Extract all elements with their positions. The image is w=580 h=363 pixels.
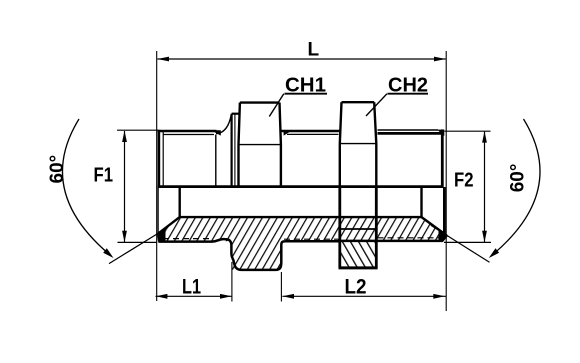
right 60 degree arc xyxy=(491,119,540,256)
mid body top edge xyxy=(281,130,340,132)
F2 dimension line xyxy=(484,132,486,242)
CH1 underline xyxy=(285,93,328,95)
right thread crest line xyxy=(378,129,439,131)
L2 right arrow xyxy=(433,294,445,299)
right thread top edge xyxy=(378,132,442,135)
locknut CH2 washer line xyxy=(341,228,376,230)
F1 dimension line xyxy=(124,131,126,242)
L2 left arrow xyxy=(282,294,294,299)
dimension L right arrow xyxy=(434,57,446,62)
locknut CH2 section right edge xyxy=(375,187,378,268)
L1 dimension line xyxy=(156,295,232,297)
F1 bottom extension line xyxy=(118,241,158,243)
left thread top edge xyxy=(158,130,217,132)
locknut CH2 section bottom xyxy=(339,266,378,269)
L1 left arrow xyxy=(156,294,168,299)
CH2 underline xyxy=(388,93,429,95)
band bottom edge left with hex1 step xyxy=(158,239,339,270)
F2 top arrow xyxy=(482,131,487,142)
mid body runout xyxy=(284,130,293,135)
lower right bore step xyxy=(420,187,422,218)
CH1 leader xyxy=(269,94,284,117)
locknut CH2 section left edge xyxy=(338,187,341,268)
lower left end face line xyxy=(157,187,159,233)
svg-text:60°: 60° xyxy=(508,164,529,193)
svg-text:F1: F1 xyxy=(94,165,114,187)
band top edge with chamfers xyxy=(158,217,447,235)
hidden thread root dashes right xyxy=(378,237,442,239)
collar inner line xyxy=(234,115,236,187)
locknut CH2 lower section hatch xyxy=(341,241,377,269)
left thread runout curve xyxy=(216,115,231,134)
mid body root line xyxy=(287,133,339,135)
centerline body mid line xyxy=(158,185,444,188)
cone line right xyxy=(431,225,490,262)
F2 bottom extension line xyxy=(444,241,491,243)
hex1 nut lower section hatch xyxy=(232,241,282,270)
hidden thread root dashes left xyxy=(163,238,213,240)
L2 dimension line xyxy=(282,295,446,297)
hex CH2 chamfer line xyxy=(340,143,377,145)
left thread runout xyxy=(211,130,221,135)
left extension line xyxy=(156,51,158,301)
hex nut CH1 outline xyxy=(239,103,281,187)
svg-text:L1: L1 xyxy=(182,275,201,298)
dimension L line xyxy=(157,58,445,60)
svg-text:F2: F2 xyxy=(454,170,474,192)
CH2 leader xyxy=(366,94,387,116)
L1 right arrow xyxy=(220,294,232,299)
F1 bottom arrow xyxy=(122,231,127,242)
left arc arrowhead xyxy=(103,248,113,258)
L2 left extension line xyxy=(280,272,282,302)
F2 top extension line xyxy=(445,130,491,132)
lower left bore step xyxy=(178,187,180,218)
hatched flange band section xyxy=(158,217,447,241)
right thread runout xyxy=(437,130,444,136)
right extension line xyxy=(445,51,447,311)
collar left edge xyxy=(231,114,233,187)
dimension L left arrow xyxy=(157,57,169,62)
cone line left xyxy=(109,227,168,263)
svg-text:L: L xyxy=(308,40,320,61)
svg-text:L2: L2 xyxy=(345,275,367,298)
hex CH1 chamfer line xyxy=(239,144,281,146)
left thread root line xyxy=(163,134,214,136)
band bottom edge right xyxy=(340,236,447,241)
collar top edge xyxy=(232,113,239,115)
right arc arrowhead xyxy=(489,248,499,258)
left wedge tip fill xyxy=(157,227,166,242)
left chamfer line xyxy=(162,131,164,186)
F2 bottom arrow xyxy=(482,231,487,242)
body right end face lower xyxy=(443,187,446,238)
body right end face xyxy=(441,129,444,187)
svg-text:60°: 60° xyxy=(47,155,68,184)
left thread end line xyxy=(215,135,217,187)
L1 right extension line xyxy=(231,262,233,302)
hidden thread root dashes mid xyxy=(284,238,339,240)
left 60 degree arc xyxy=(62,119,111,256)
F1 top arrow xyxy=(122,131,127,142)
right wedge tip fill xyxy=(439,229,448,242)
F1 top extension line xyxy=(117,129,158,131)
locknut CH2 outline xyxy=(340,102,377,186)
body left end face xyxy=(158,130,161,188)
